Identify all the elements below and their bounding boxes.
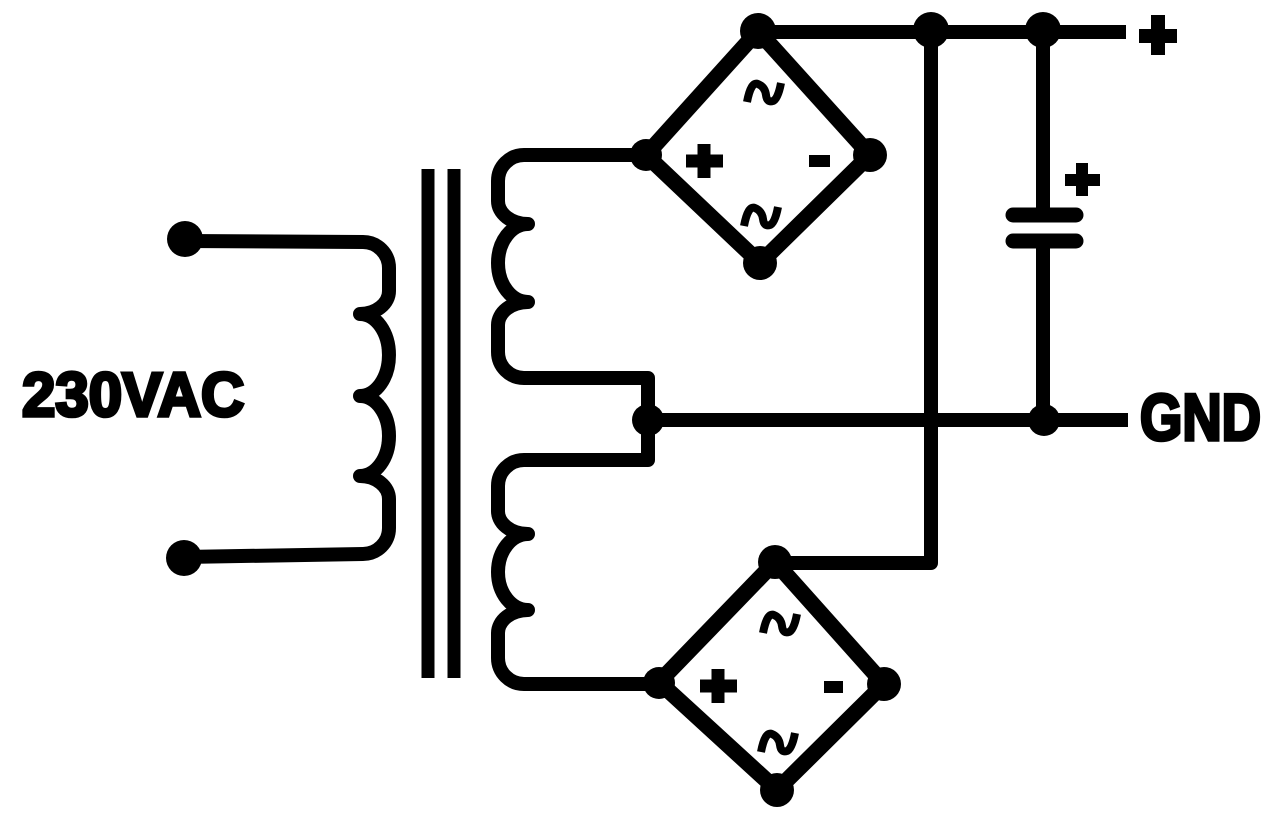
node BR2 left vertex dot — [643, 667, 675, 699]
bridge rectifier BR1 diamond — [646, 31, 870, 263]
wire top rail to capacitor C1 top plate — [1036, 32, 1050, 208]
svg-text:230VAC: 230VAC — [22, 360, 244, 429]
capacitor C1 bottom plate — [1013, 234, 1076, 249]
label BR1 plus — [686, 144, 723, 178]
wire capacitor C1 bottom plate to ground rail — [1036, 248, 1050, 420]
node primary top terminal dot — [167, 221, 203, 257]
label BR1 ac top tilde — [747, 83, 781, 102]
transformer T1 core line 1 — [422, 169, 435, 678]
transformer T1 secondary windings with center tap wire — [498, 155, 659, 684]
transformer T1 primary winding with lead wires — [184, 241, 389, 557]
node BR2 top vertex dot — [758, 545, 792, 579]
wire ground rail from center tap to GND — [648, 413, 1128, 427]
node top rail junction dot to BR2 branch — [913, 12, 949, 48]
node capacitor to ground junction dot — [1028, 404, 1060, 436]
node BR2 right vertex dot — [867, 667, 901, 701]
node BR1 top vertex dot — [740, 13, 776, 49]
node primary bottom terminal dot — [166, 540, 202, 576]
svg-text:GND: GND — [1140, 380, 1261, 454]
label BR1 ac bottom tilde — [744, 207, 778, 226]
wire from top rail down to BR2 ac input — [775, 32, 931, 563]
label BR2 minus — [824, 681, 843, 693]
node BR2 bottom vertex dot — [760, 773, 794, 807]
capacitor C1 top plate — [1013, 208, 1076, 223]
wire positive top rail — [752, 25, 1126, 39]
label BR2 ac bottom tilde — [761, 733, 795, 752]
label BR2 plus — [700, 669, 737, 703]
label capacitor C1 polarity plus sign — [1065, 163, 1100, 196]
label BR2 ac top tilde — [763, 614, 797, 633]
transformer T1 core line 2 — [448, 169, 461, 678]
node BR1 right vertex dot — [853, 138, 887, 172]
node center tap junction dot — [632, 404, 664, 436]
node BR1 bottom vertex dot — [743, 246, 777, 280]
bridge rectifier BR2 diamond — [659, 562, 884, 790]
node top rail junction dot to capacitor branch — [1025, 12, 1061, 48]
label BR1 minus — [809, 155, 830, 167]
node BR1 left vertex dot — [630, 139, 662, 171]
label positive output plus sign — [1139, 15, 1177, 55]
